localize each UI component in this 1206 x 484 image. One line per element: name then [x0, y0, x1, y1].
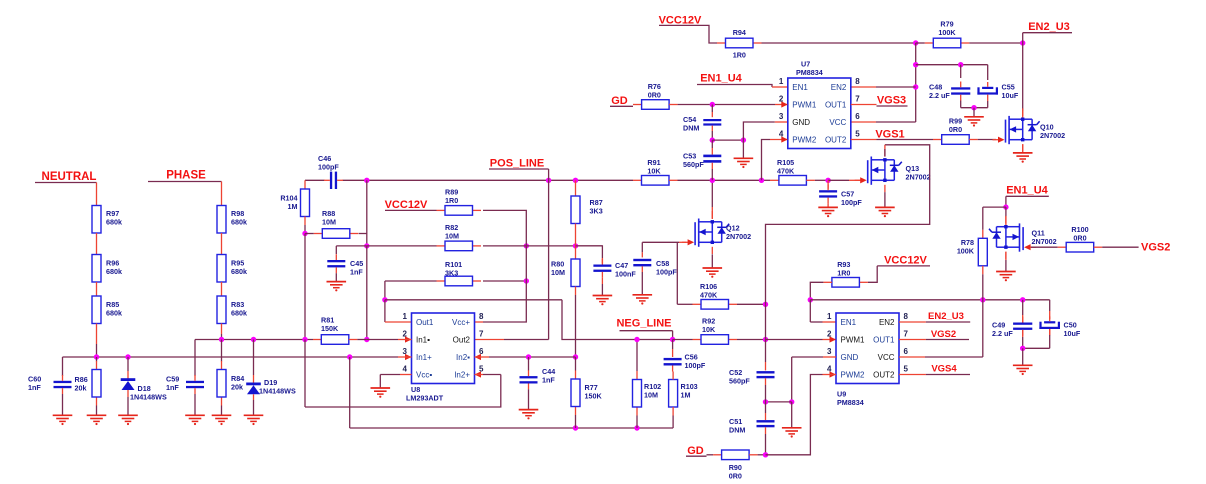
svg-text:6: 6 [855, 112, 860, 121]
node [741, 137, 746, 142]
pin 2 stub U7 [775, 104, 788, 106]
svg-text:100pF: 100pF [318, 163, 339, 172]
wire R100 line [1031, 246, 1058, 248]
node on NEUTRAL rail at D18 [125, 354, 130, 359]
node on PHASE rail at D19 [251, 337, 256, 342]
node C44 top [526, 354, 531, 359]
svg-text:7: 7 [904, 330, 909, 339]
resistor R83 [217, 296, 226, 324]
svg-text:VCC12V: VCC12V [884, 255, 927, 267]
svg-text:680k: 680k [231, 218, 247, 227]
node R77 bottom [573, 425, 578, 430]
node C52 bottom [763, 399, 768, 404]
node C46 right [364, 178, 369, 183]
wire [221, 233, 223, 255]
svg-text:1M: 1M [681, 391, 691, 400]
svg-text:EN1: EN1 [792, 83, 808, 92]
svg-text:PHASE: PHASE [166, 170, 206, 182]
svg-text:GD: GD [611, 95, 628, 107]
node C52 column on NEG_LINE [763, 337, 768, 342]
svg-text:VGS1: VGS1 [875, 129, 904, 141]
svg-text:7: 7 [479, 330, 484, 339]
wire to R78 [983, 206, 1006, 208]
ground [327, 281, 347, 283]
wire In2- line [489, 356, 529, 358]
wire EN1_U4 to pin1 [697, 85, 772, 88]
wire down to Q10 drain [1022, 43, 1024, 111]
svg-text:OUT2: OUT2 [873, 370, 895, 379]
resistor R95 [217, 255, 226, 283]
wire [96, 406, 98, 416]
svg-text:10K: 10K [647, 167, 661, 176]
ground [633, 294, 653, 296]
wire C58 / Q12 gate line [642, 241, 679, 243]
pin 3 stub [398, 356, 412, 358]
wire R106 left column [676, 242, 678, 304]
node EN1_U4 / R78 / Q11 [1003, 204, 1008, 209]
wire Q11 source to ground [1005, 252, 1007, 260]
svg-text:100K: 100K [957, 247, 975, 256]
pin 2 input arrow [405, 336, 412, 342]
wire stem to ground [791, 402, 793, 428]
wire VCC branch column [915, 43, 917, 122]
pin 2 stub [367, 339, 398, 341]
node [1020, 346, 1025, 351]
transistor Q10 2N7002 [1022, 111, 1024, 118]
wire C48/C55 bottoms [961, 107, 988, 109]
capacitor C45 [336, 245, 367, 247]
svg-text:1nF: 1nF [542, 376, 555, 385]
wire U9 pin6 VCC [899, 356, 925, 358]
pin 6 input arrow [475, 354, 482, 360]
capacitor C54 DNM [711, 105, 713, 113]
svg-text:100K: 100K [938, 28, 956, 37]
wire to VGS2 [1102, 246, 1138, 248]
svg-text:10M: 10M [644, 391, 658, 400]
svg-text:VCC12V: VCC12V [385, 199, 428, 211]
svg-text:7: 7 [855, 95, 860, 104]
svg-text:In1+: In1+ [416, 353, 432, 362]
svg-text:10M: 10M [322, 218, 336, 227]
svg-text:100pF: 100pF [841, 198, 862, 207]
svg-text:PWM2: PWM2 [792, 135, 817, 144]
wire NEG_LINE underline [620, 330, 673, 332]
svg-text:PWM2: PWM2 [841, 370, 866, 379]
wire POS_LINE column down to Out2 [548, 180, 550, 339]
svg-text:VCC: VCC [878, 353, 895, 362]
svg-text:2N7002: 2N7002 [906, 172, 931, 181]
ground [782, 427, 802, 429]
wire to U7 pin6 VCC [876, 121, 916, 123]
wire C48/C55 feed [916, 64, 988, 66]
svg-text:4: 4 [403, 365, 408, 374]
resistor R105 [770, 179, 779, 181]
svg-text:100pF: 100pF [656, 268, 677, 277]
node R102 bottom [634, 425, 639, 430]
node C48/C55 branch [913, 62, 918, 67]
svg-text:560pF: 560pF [729, 377, 750, 386]
wire EN1_U4 rail [810, 299, 1049, 301]
wire [62, 394, 64, 415]
wire [127, 397, 129, 415]
wire In1+ feedback column [349, 357, 351, 428]
node R106 right on C52 column [763, 302, 768, 307]
ground [519, 409, 539, 411]
svg-text:1R0: 1R0 [837, 269, 850, 278]
ground [244, 414, 264, 416]
wire [96, 324, 98, 345]
node R81 right / In1- [364, 337, 369, 342]
wire R106 line [677, 303, 692, 305]
ground [185, 414, 205, 416]
node Q12 drain on POS_LINE [710, 178, 715, 183]
svg-text:10uF: 10uF [1064, 329, 1081, 338]
net label EN2_U3 (U9 pin8) [899, 321, 926, 323]
wire stem [1022, 348, 1024, 365]
svg-text:EN1: EN1 [841, 318, 857, 327]
svg-text:470K: 470K [700, 291, 718, 300]
wire Q12 source to ground [711, 254, 713, 268]
ground [212, 414, 232, 416]
node ground stem [971, 105, 976, 110]
wire to U8 pin7 Out2 [504, 339, 549, 341]
capacitor C50 10uF polarized [1049, 300, 1051, 311]
svg-text:EN1_U4: EN1_U4 [700, 73, 742, 85]
wire [678, 104, 775, 106]
node U7 PWM2 column on POS_LINE [759, 178, 764, 183]
driver U9 PM8834 [836, 313, 899, 384]
svg-text:560pF: 560pF [683, 160, 704, 169]
wire R93 left down to EN1 node [810, 282, 823, 300]
wire PHASE [148, 181, 222, 183]
resistor R89 [437, 209, 446, 211]
node [789, 399, 794, 404]
node R102 top on NEG_LINE [634, 337, 639, 342]
wire U9 pin3 GND [823, 356, 836, 358]
svg-text:5: 5 [904, 365, 909, 374]
svg-text:6: 6 [904, 347, 909, 356]
wire [366, 234, 368, 246]
wire bottom rail 2 [350, 427, 673, 429]
svg-text:VGS3: VGS3 [877, 95, 906, 107]
resistor R80 [575, 246, 577, 259]
resistor R86 [96, 357, 98, 362]
svg-text:1nF: 1nF [166, 383, 179, 392]
svg-text:0R0: 0R0 [949, 125, 962, 134]
svg-text:10K: 10K [702, 325, 716, 334]
ground [53, 414, 73, 416]
svg-text:EN2: EN2 [831, 83, 847, 92]
node on PHASE rail at R84 [219, 337, 224, 342]
svg-text:2.2 uF: 2.2 uF [929, 91, 950, 100]
svg-text:8: 8 [904, 312, 909, 321]
node POS_LINE label tap [546, 178, 551, 183]
wire [96, 233, 98, 255]
wire GD line bottom [686, 455, 707, 457]
svg-text:3: 3 [779, 112, 784, 121]
wire VCC12V to R93 [877, 265, 930, 267]
svg-text:150K: 150K [321, 324, 339, 333]
svg-text:DNM: DNM [683, 124, 699, 133]
capacitor C58 [641, 242, 643, 252]
wire VCC line [762, 42, 916, 44]
node R78 column [980, 297, 985, 302]
transistor Q11 2N7002 (mirrored) [1005, 207, 1007, 217]
svg-text:PM8834: PM8834 [837, 398, 864, 407]
wire VCC column to U8 pin8 [483, 281, 526, 322]
resistor R100 [1058, 246, 1067, 248]
op-amp U8 LM293ADT [412, 313, 475, 384]
capacitor C47 [576, 246, 603, 258]
wire GND branch U7 pin3 [712, 139, 743, 141]
pin 2 stub U9 [823, 339, 837, 341]
diode D18 1N4148WS [127, 357, 129, 371]
pin 1 stub [385, 321, 412, 323]
capacitor C59 [194, 340, 196, 377]
wire R80 bottom to In2- line [575, 295, 577, 357]
pin 8 stub [475, 321, 484, 323]
svg-text:EN1_U4: EN1_U4 [1006, 185, 1048, 197]
svg-text:1: 1 [779, 77, 784, 86]
svg-text:VGS2: VGS2 [1141, 242, 1170, 254]
wire [737, 339, 766, 341]
capacitor C55 10uF polarized [987, 65, 989, 80]
node [913, 40, 918, 45]
transistor Q13 2N7002 [867, 160, 869, 183]
svg-text:5: 5 [855, 130, 860, 139]
pin 7 stub [475, 339, 505, 341]
gate driver U7 PM8834 [788, 78, 851, 149]
svg-text:NEUTRAL: NEUTRAL [42, 171, 97, 183]
wire VCC12V to R89 [385, 209, 437, 211]
resistor R88 [305, 233, 314, 235]
svg-text:Vcc▪: Vcc▪ [416, 370, 432, 379]
wire down to NEG_LINE [562, 300, 673, 340]
wire C52 column [765, 304, 767, 339]
wire EN1_U4 underline [1006, 195, 1049, 197]
svg-text:2N7002: 2N7002 [1040, 131, 1065, 140]
wire VCC12V [659, 25, 717, 43]
svg-text:680k: 680k [106, 267, 122, 276]
resistor R85 [92, 296, 101, 324]
node on NEUTRAL rail at R86 [94, 354, 99, 359]
ground [87, 414, 107, 416]
wire R91 line (POS_LINE left of U7) [633, 179, 642, 181]
ground [818, 206, 838, 208]
ground [734, 157, 754, 159]
wire NEUTRAL bottom rail [63, 356, 399, 358]
resistor R96 [92, 255, 101, 283]
svg-text:20k: 20k [231, 383, 243, 392]
ground [1013, 364, 1033, 366]
pin 2 input arrow [781, 101, 788, 107]
svg-text:VCC: VCC [829, 118, 846, 127]
net label VGS1 / OUT2 wire [851, 139, 877, 141]
node C54 column on PWM1 line [710, 102, 715, 107]
diode D19 1N4148WS [253, 340, 255, 376]
svg-text:R94: R94 [733, 28, 746, 37]
svg-text:0R0: 0R0 [1073, 234, 1086, 243]
net label VGS3 [851, 104, 877, 106]
wire to U9 pin1 [809, 300, 811, 322]
node R82 line / C45 [364, 243, 369, 248]
svg-text:2.2 uF: 2.2 uF [992, 329, 1013, 338]
ground [996, 271, 1016, 273]
pin 2 input arrow [830, 336, 837, 342]
resistor R87 [575, 180, 577, 196]
svg-text:0R0: 0R0 [648, 90, 661, 99]
resistor R76 [642, 100, 670, 110]
wire to Q13 gate [828, 179, 849, 181]
svg-text:1R0: 1R0 [733, 51, 746, 60]
svg-text:GD: GD [687, 445, 704, 457]
pin 4 input arrow [830, 371, 837, 377]
resistor R82 [437, 245, 446, 247]
svg-text:8: 8 [855, 77, 860, 86]
pin 4 input arrow [781, 136, 788, 142]
svg-text:1: 1 [403, 312, 408, 321]
node C57 top [825, 178, 830, 183]
svg-text:EN2_U3: EN2_U3 [928, 311, 964, 322]
capacitor C57 [827, 180, 829, 189]
svg-text:2N7002: 2N7002 [726, 232, 751, 241]
svg-text:EN2: EN2 [879, 318, 895, 327]
capacitor C56 [672, 340, 674, 350]
wire [194, 394, 196, 415]
capacitor C53 [711, 140, 713, 148]
resistor R90 [713, 454, 722, 456]
node NEG_LINE / C56 [670, 337, 675, 342]
svg-text:LM293ADT: LM293ADT [406, 393, 444, 402]
wire R101 line [385, 280, 437, 282]
wire to Q10 gate [978, 139, 996, 141]
svg-text:VCC12V: VCC12V [659, 14, 702, 26]
wire NEG_LINE to R92 [673, 339, 693, 341]
wire [221, 282, 223, 296]
capacitor C52 [765, 340, 767, 363]
svg-text:3: 3 [827, 347, 832, 356]
ground [593, 295, 613, 297]
ground [875, 206, 895, 208]
wire In2+ routing [483, 374, 501, 376]
svg-text:1M: 1M [288, 202, 298, 211]
wire R104 column down [304, 234, 306, 340]
wire to U7 pin8 EN2 [876, 86, 916, 88]
node C48 top [958, 62, 963, 67]
svg-text:EN2_U3: EN2_U3 [1028, 21, 1070, 33]
node C54/C53 junction [710, 137, 715, 142]
node Out1 column [382, 297, 387, 302]
node U9 EN1 / EN1_U4 rail [808, 297, 813, 302]
wire GD to U9 pin4 [766, 375, 823, 455]
svg-text:OUT1: OUT1 [873, 335, 895, 344]
wire PHASE bottom rail [195, 339, 313, 341]
net label VGS2 (U9 pin7) [899, 339, 926, 341]
svg-text:1nF: 1nF [350, 268, 363, 277]
wire C52/C51 mid branch [766, 401, 792, 403]
svg-text:DNM: DNM [729, 426, 745, 435]
wire [758, 454, 766, 456]
wire POS_LINE underline [489, 168, 549, 170]
resistor R77 [575, 357, 577, 371]
wire Q13 source to ground [884, 192, 886, 207]
svg-text:In2▪: In2▪ [456, 353, 470, 362]
ground [964, 116, 984, 118]
svg-text:1N4148WS: 1N4148WS [130, 392, 167, 401]
resistor R79 [925, 42, 934, 44]
wire [969, 42, 1022, 44]
wire [483, 245, 526, 247]
resistor R92 [693, 339, 702, 341]
svg-text:680k: 680k [231, 267, 247, 276]
wire GD line [610, 105, 633, 107]
svg-text:8: 8 [479, 312, 484, 321]
node R80/R77/In2- [573, 354, 578, 359]
svg-text:PM8834: PM8834 [796, 68, 823, 77]
resistor R84 [221, 340, 223, 362]
resistor R103 [669, 380, 678, 408]
svg-text:In2+: In2+ [454, 370, 470, 379]
wire C49/C50 bottoms [1023, 347, 1050, 349]
svg-text:100pF: 100pF [685, 361, 706, 370]
node R104 column on PHASE rail [302, 337, 307, 342]
wire Q10 source to ground [1022, 144, 1024, 153]
pin 4 Vcc- to ground [400, 374, 412, 376]
svg-text:PWM1: PWM1 [841, 335, 866, 344]
resistor R104 [304, 180, 306, 189]
wire [253, 400, 255, 415]
resistor R81 [313, 339, 321, 341]
svg-text:Vcc+: Vcc+ [452, 318, 470, 327]
svg-text:VGS2: VGS2 [931, 329, 956, 340]
resistor R97 [96, 197, 98, 206]
node VCC column at R101 line [524, 278, 529, 283]
resistor R91 [642, 176, 670, 186]
capacitor C51 DNM [765, 402, 767, 413]
svg-text:3K3: 3K3 [590, 207, 603, 216]
svg-text:470K: 470K [777, 167, 795, 176]
node C51 bottom on GD line [763, 452, 768, 457]
wire [221, 324, 223, 335]
wire R88 right up to C46 node [359, 233, 367, 235]
svg-text:10M: 10M [445, 232, 459, 241]
svg-text:10uF: 10uF [1002, 91, 1019, 100]
svg-text:Out2: Out2 [453, 335, 471, 344]
wire R82 line [367, 245, 437, 247]
resistor R93 [859, 281, 868, 283]
net label VGS4 (U9 pin5) [899, 374, 926, 376]
svg-text:2N7002: 2N7002 [1032, 237, 1057, 246]
svg-text:PWM1: PWM1 [792, 100, 817, 109]
wire column to In1- line [366, 246, 368, 340]
capacitor C44 [528, 357, 530, 371]
svg-text:NEG_LINE: NEG_LINE [616, 318, 671, 330]
svg-text:680k: 680k [106, 218, 122, 227]
wire Q13 drain to NEG_LINE riser [884, 149, 886, 157]
node C49 column [1020, 297, 1025, 302]
wire U7 pin4 PWM2 column [762, 140, 771, 181]
node R87 top [573, 178, 578, 183]
wire Out1 routing (NEG_LINE source) [384, 281, 386, 300]
svg-text:0R0: 0R0 [729, 472, 742, 481]
svg-text:POS_LINE: POS_LINE [490, 158, 544, 170]
svg-text:In1▪: In1▪ [416, 335, 430, 344]
ground [1013, 152, 1033, 154]
resistor R98 [221, 197, 223, 206]
wire R89 right down to VCC column [483, 210, 526, 237]
resistor R106 [693, 303, 702, 305]
wire NEUTRAL [35, 182, 97, 184]
